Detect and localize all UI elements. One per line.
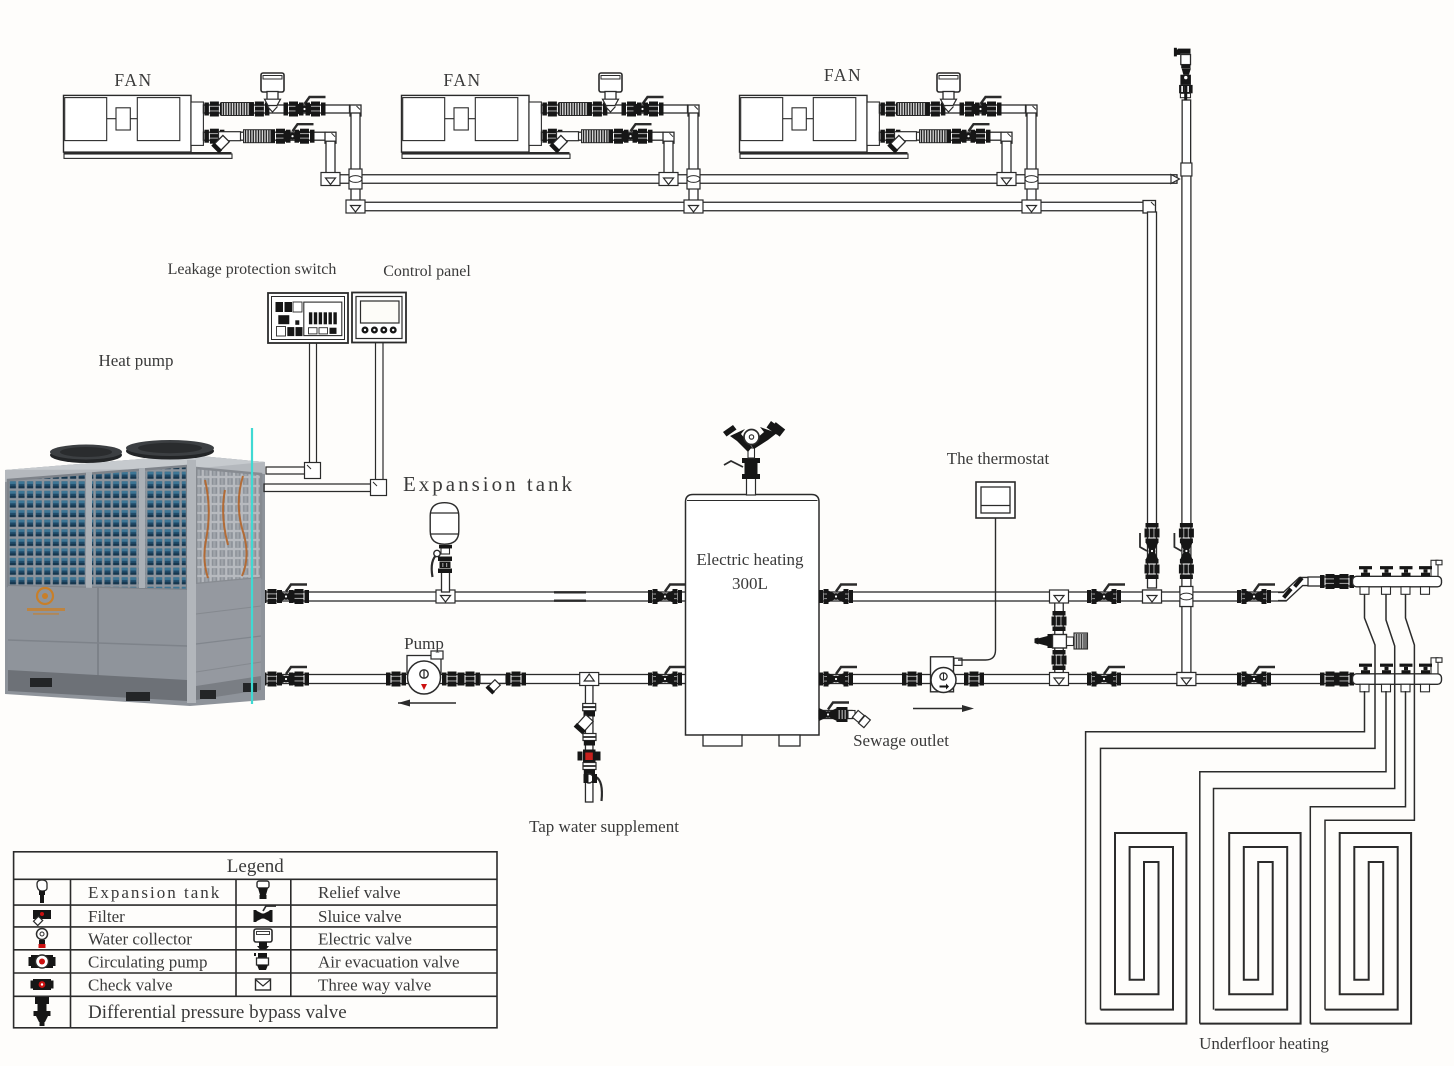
svg-text:Water collector: Water collector xyxy=(88,929,192,948)
fan coil unit 2 supply union xyxy=(542,102,562,117)
supply manifold body xyxy=(1353,560,1443,587)
fan coil unit 3 supply union 2 xyxy=(925,102,945,117)
svg-text:Electric valve: Electric valve xyxy=(318,929,412,948)
bypass bottom joint xyxy=(1050,673,1069,686)
supply manifold loop valve 4 xyxy=(1419,566,1432,576)
expansion tank shutoff valve xyxy=(432,545,452,577)
filter inlet union xyxy=(460,672,480,687)
riser 2 coupling below header junction xyxy=(1181,163,1192,176)
fan coil unit 3 supply flexible hose xyxy=(897,103,929,116)
fan coil unit 2 return drop pipe xyxy=(664,141,673,175)
supply manifold feed pipe xyxy=(1308,577,1352,586)
heat pump cabinet xyxy=(5,455,265,706)
fan coil unit 2 supply union 2 xyxy=(587,102,607,117)
fan coil unit 3 return union xyxy=(880,129,900,144)
riser 2 tee joint into return pipe xyxy=(1177,673,1196,686)
tap water vertical pipe xyxy=(585,685,593,802)
supply loop line 3 xyxy=(1325,594,1414,1010)
main return filter strainer leg xyxy=(485,679,500,694)
riser 2 upper thin pipe xyxy=(1182,100,1191,175)
riser 2 vertical pipe xyxy=(1182,175,1191,674)
sewage outlet stub xyxy=(819,711,852,719)
tap water tee joint xyxy=(580,673,599,686)
riser 1 tee joint into supply pipe xyxy=(1143,590,1162,603)
riser 1 vertical pipe xyxy=(1148,212,1157,588)
lower header elbow to riser 1 xyxy=(1143,201,1156,214)
legend icon differential pressure bypass valve xyxy=(34,997,51,1026)
fan coil unit 1 return sluice valve xyxy=(284,124,314,143)
sewage outlet ball valve xyxy=(819,703,849,722)
fan coil unit 2 supply union 4 xyxy=(644,102,664,117)
differential pressure bypass valve body xyxy=(1035,633,1088,649)
heat pump supply union xyxy=(262,589,282,604)
supply manifold outlet stub 4 xyxy=(1421,587,1430,595)
return pipe sluice valve B xyxy=(1237,672,1271,687)
fan coil unit 1 base plate xyxy=(64,153,233,158)
fan coil unit 2 return filter strainer xyxy=(549,132,578,154)
fan coil unit 1 supply pipe crossing upper header xyxy=(349,169,362,189)
fan coil unit 3 return filter strainer xyxy=(887,132,916,154)
svg-text:Tap water supplement: Tap water supplement xyxy=(529,817,679,836)
return manifold outlet stub 4 xyxy=(1421,684,1430,692)
svg-text:Filter: Filter xyxy=(88,907,125,926)
underfloor heating coil 3 xyxy=(1310,833,1411,1024)
fan coil unit 3 return flexible hose xyxy=(920,130,951,143)
fan coil unit 3 return elbow xyxy=(1001,132,1012,143)
fan coil unit 1 supply union xyxy=(204,102,224,117)
tap water flange pair xyxy=(583,704,596,711)
fan coil unit 1 return filter strainer xyxy=(211,132,240,154)
fan coil unit 3 supply union 4 xyxy=(982,102,1002,117)
fan coil unit 3 base plate xyxy=(740,153,909,158)
thermostat xyxy=(976,482,1015,518)
heat pump side copper pipes xyxy=(204,476,246,578)
return manifold body xyxy=(1353,658,1443,685)
tank outlet sluice valve (supply) body xyxy=(827,585,857,604)
legend icon sluice valve xyxy=(254,906,277,922)
fan coil unit 2 return union 3 xyxy=(633,129,653,144)
return pipe sluice valve A xyxy=(1087,672,1121,687)
supply manifold loop valve 2 xyxy=(1380,566,1393,576)
return manifold loop valve 4 xyxy=(1419,664,1432,674)
svg-text:Control panel: Control panel xyxy=(383,263,471,280)
legend icon check valve xyxy=(31,979,54,990)
fan coil unit 3 body xyxy=(740,95,880,152)
fan coil unit 2 return elbow xyxy=(663,132,674,143)
fan coil unit 1 supply union 4 xyxy=(306,102,326,117)
expansion tank vessel xyxy=(430,503,459,545)
fan coil unit 2 return flexible hose xyxy=(582,130,613,143)
svg-text:FAN: FAN xyxy=(824,65,862,85)
tank outlet sluice valve (supply) xyxy=(819,589,853,604)
fan coil unit 1 supply tee into lower header xyxy=(346,200,365,213)
heat pump return union 2 xyxy=(289,672,309,687)
tank inlet sluice valve (supply) body xyxy=(656,585,686,604)
return manifold loop valve 3 xyxy=(1400,664,1413,674)
fan coil unit 1 supply union 3 xyxy=(284,102,304,117)
circulating pump body xyxy=(407,651,443,694)
bypass top tee xyxy=(1050,590,1069,603)
legend icon filter xyxy=(33,910,51,925)
supply manifold union xyxy=(1320,574,1340,589)
heat pump lower panels xyxy=(8,586,187,700)
fan coil unit 3 electric valve xyxy=(937,73,960,112)
riser 2 crossing supply pipe xyxy=(1180,587,1193,607)
svg-text:Three way valve: Three way valve xyxy=(318,976,431,995)
fan coil unit 2 supply pipe xyxy=(541,105,687,113)
circulating pump outlet union xyxy=(964,672,984,687)
fan coil unit 2 return union xyxy=(542,129,562,144)
fan coil unit 2 supply pipe crossing upper header xyxy=(687,169,700,189)
svg-text:Check valve: Check valve xyxy=(88,976,173,995)
heat pump feet xyxy=(30,678,257,701)
riser 2 crossing over supply pipe xyxy=(1180,587,1193,607)
thermostat wire xyxy=(958,518,996,660)
svg-text:FAN: FAN xyxy=(443,70,481,90)
riser 1 tee into supply pipe xyxy=(1143,590,1162,603)
return loop line 2 xyxy=(1200,691,1386,1024)
fan coil unit 1 return flexible hose xyxy=(244,130,275,143)
heat pump fan 2 xyxy=(126,443,214,460)
sewage outlet union xyxy=(837,707,848,722)
electric heating tank 300L xyxy=(686,495,820,747)
fan coil unit 1 return elbow xyxy=(325,132,336,143)
return loop line 1 xyxy=(1086,691,1365,1024)
fan coil unit 1 return pipe xyxy=(203,132,325,140)
flow arrow left under pump xyxy=(398,702,456,704)
svg-text:Heat pump: Heat pump xyxy=(98,351,173,370)
svg-text:Relief valve: Relief valve xyxy=(318,883,401,902)
supply pipe sluice valve B body xyxy=(1245,585,1275,604)
svg-text:Sewage outlet: Sewage outlet xyxy=(853,731,949,750)
svg-text:Expansion tank: Expansion tank xyxy=(88,883,221,902)
return manifold union xyxy=(1320,672,1340,687)
return pipe sluice valve A body xyxy=(1095,667,1125,686)
tap water flange pair 3 xyxy=(583,763,596,770)
fan coil unit 3 supply drop pipe xyxy=(1027,113,1036,203)
fan coil unit 3 supply elbow xyxy=(1026,105,1037,116)
pump inlet union xyxy=(386,672,406,687)
fan coil unit 2 return union 2 xyxy=(609,129,629,144)
fan coil unit 2 supply drop pipe xyxy=(689,113,698,203)
fan coil unit 3 supply union xyxy=(880,102,900,117)
expansion tank tee joint xyxy=(436,590,455,603)
svg-text:Air evacuation valve: Air evacuation valve xyxy=(318,952,460,971)
fan coil unit 3 return union 3 xyxy=(971,129,991,144)
return pipe sluice valve B body xyxy=(1245,667,1275,686)
fan coil unit 2 supply tee into lower header xyxy=(684,200,703,213)
union coupling xyxy=(1179,559,1194,579)
fan coil unit 1 return union 3 xyxy=(295,129,315,144)
tank outlet sluice valve (return) xyxy=(819,672,853,687)
tap water 45-degree spout xyxy=(574,714,594,735)
fan coil unit 1 electric valve xyxy=(261,73,284,112)
heat pump front grille posts xyxy=(86,472,92,588)
return manifold loop valve 1 xyxy=(1359,664,1372,674)
legend icon expansion tank xyxy=(37,880,47,903)
bypass vertical pipe xyxy=(1055,601,1064,675)
return manifold outlet stub 2 xyxy=(1382,684,1391,692)
svg-text:Pump: Pump xyxy=(404,634,444,653)
legend icon air evacuation valve xyxy=(254,953,269,970)
fan coil unit 2 supply sluice valve xyxy=(634,97,664,116)
upper header joint into riser 2 xyxy=(1171,175,1180,184)
fan coil unit 2 body xyxy=(402,95,542,152)
svg-text:The thermostat: The thermostat xyxy=(947,449,1050,468)
main return pipe xyxy=(266,675,1352,684)
fan coil unit 1 supply elbow xyxy=(350,105,361,116)
supply manifold outlet stub 1 xyxy=(1360,587,1369,595)
fan coil unit 1 return union xyxy=(204,129,224,144)
svg-text:FAN: FAN xyxy=(114,70,152,90)
leakage switch wire to heat pump xyxy=(275,343,310,467)
heat pump return union xyxy=(262,672,282,687)
main return filter body xyxy=(480,675,506,684)
tank inlet sluice valve (return) xyxy=(648,672,682,687)
fan coil unit 1 supply drop pipe xyxy=(351,113,360,203)
union coupling xyxy=(1179,523,1194,543)
control panel box xyxy=(352,293,406,343)
return manifold outlet stub 3 xyxy=(1401,684,1410,692)
fan coil unit 3 supply sluice valve xyxy=(972,97,1002,116)
filter outlet union xyxy=(506,672,526,687)
svg-text:Underfloor heating: Underfloor heating xyxy=(1199,1034,1329,1053)
supply pipe sluice valve B xyxy=(1237,589,1271,604)
fan coil unit 2 return tee into upper header xyxy=(659,173,678,186)
heat pump base strip xyxy=(8,670,187,701)
cyan vertical guide line xyxy=(251,428,253,704)
circulating pump body xyxy=(931,657,963,693)
fan coil unit 3 return union 2 xyxy=(947,129,967,144)
fan coil unit 1 supply union 2 xyxy=(249,102,269,117)
svg-text:Leakage protection switch: Leakage protection switch xyxy=(168,261,337,278)
fan coil unit 2 base plate xyxy=(402,153,571,158)
fan coil unit 1 supply pipe xyxy=(203,105,349,113)
tap water flange pair 2 xyxy=(583,734,596,741)
return loop line 3 xyxy=(1310,691,1405,1024)
fan coil unit 3 return pipe xyxy=(879,132,1001,140)
tank inlet sluice valve (supply) xyxy=(648,589,682,604)
fan coil unit 2 supply elbow xyxy=(688,105,699,116)
supply manifold union 2 xyxy=(1334,574,1354,589)
fan coil unit 1 supply flexible hose xyxy=(221,103,253,116)
legend icon circulating pump xyxy=(29,955,56,968)
supply loop line 2 xyxy=(1214,594,1395,1010)
union coupling xyxy=(1145,559,1160,579)
underfloor heating coil 1 xyxy=(1086,833,1187,1024)
leakage protection switch box xyxy=(268,293,348,343)
legend table xyxy=(14,852,497,1028)
heat pump fan 1 xyxy=(50,447,122,463)
supply manifold loop valve 3 xyxy=(1400,566,1413,576)
heat pump unit xyxy=(5,428,265,706)
supply manifold outlet stub 3 xyxy=(1401,587,1410,595)
fan coil unit 2 supply union 3 xyxy=(622,102,642,117)
return manifold outlet stub 1 xyxy=(1360,684,1369,692)
heat pump side coil grille xyxy=(196,468,261,584)
control panel wire to heat pump xyxy=(272,343,376,485)
svg-text:Circulating pump: Circulating pump xyxy=(88,952,207,971)
fan coil unit 2 electric valve xyxy=(599,73,622,112)
supply loop line 1 xyxy=(1101,594,1376,1010)
legend icon three way valve xyxy=(256,979,271,990)
tap water sluice valve xyxy=(584,774,602,801)
svg-text:Legend: Legend xyxy=(227,856,284,877)
lower header pipe (fan supply main) xyxy=(356,202,1149,211)
tap water union xyxy=(584,711,596,717)
heat pump top frame xyxy=(5,455,265,482)
heat pump corner post xyxy=(187,460,196,703)
underfloor heating coil 2 xyxy=(1200,833,1301,1024)
tank inlet sluice valve (return) body xyxy=(656,667,686,686)
fan coil unit 1 return union 2 xyxy=(271,129,291,144)
fan coil unit 1 return tee into upper header xyxy=(321,173,340,186)
bypass union top xyxy=(1052,611,1067,631)
return manifold loop valve 2 xyxy=(1380,664,1393,674)
svg-text:Expansion tank: Expansion tank xyxy=(403,472,575,496)
sewage outlet spout xyxy=(848,710,870,728)
fan coil unit 3 supply tee into lower header xyxy=(1022,200,1041,213)
ball valve xyxy=(1174,533,1193,560)
heat pump supply sluice valve xyxy=(277,585,307,604)
fan coil unit 3 return tee into upper header xyxy=(997,173,1016,186)
fan coil unit 3 supply pipe xyxy=(879,105,1025,113)
expansion tank stem pipe xyxy=(442,572,450,592)
heat pump return sluice valve xyxy=(277,667,307,686)
fan coil unit 1 supply sluice valve xyxy=(296,97,326,116)
supply pipe diagonal offset to manifold xyxy=(1278,577,1311,599)
fan coil unit 2 supply flexible hose xyxy=(559,103,591,116)
fan coil unit 1 body xyxy=(64,95,204,152)
ball valve xyxy=(1140,533,1159,560)
heat pump front coil grille xyxy=(8,466,187,590)
legend icon relief valve xyxy=(257,881,269,899)
supply manifold loop valve 1 xyxy=(1359,566,1372,576)
air evacuation valve at top of riser 2 xyxy=(1174,48,1193,101)
supply pipe sluice valve A xyxy=(1087,589,1121,604)
fan coil unit 3 return drop pipe xyxy=(1002,141,1011,175)
circulating pump inlet union xyxy=(902,672,922,687)
tap water check valve xyxy=(578,750,601,763)
svg-text:Sluice valve: Sluice valve xyxy=(318,907,402,926)
fan coil unit 3 return sluice valve xyxy=(960,124,990,143)
riser 2 tee into return pipe xyxy=(1177,673,1196,686)
fan coil unit 3 supply union 3 xyxy=(960,102,980,117)
flow arrow right xyxy=(913,708,962,710)
fan coil unit 3 supply pipe crossing upper header xyxy=(1025,169,1038,189)
supply pipe sluice valve A body xyxy=(1095,585,1125,604)
svg-text:300L: 300L xyxy=(732,574,768,593)
heat pump logo xyxy=(37,588,53,604)
heat pump supply union 2 xyxy=(289,589,309,604)
upper header pipe (fan return main) xyxy=(331,175,1178,184)
fan coil unit 1 return drop pipe xyxy=(326,141,335,175)
svg-text:Differential pressure bypass v: Differential pressure bypass valve xyxy=(88,1002,347,1023)
tank outlet sluice valve (return) body xyxy=(827,667,857,686)
control panel wire elbow box xyxy=(371,480,387,496)
svg-text:Electric heating: Electric heating xyxy=(696,550,804,569)
tank safety valve group xyxy=(723,421,785,495)
main supply pipe (heat pump to manifold) xyxy=(266,592,1286,601)
fan coil unit 2 return pipe xyxy=(541,132,663,140)
legend icon water collector xyxy=(37,929,48,949)
bypass union bottom xyxy=(1052,650,1067,670)
supply pipe sleeve coupling marks xyxy=(554,592,586,600)
leakage switch wire elbow box xyxy=(305,463,321,479)
union coupling xyxy=(1145,523,1160,543)
pump outlet union xyxy=(442,672,462,687)
supply manifold outlet stub 2 xyxy=(1382,587,1391,595)
legend icon electric valve xyxy=(254,929,272,950)
return manifold union 2 xyxy=(1334,672,1354,687)
fan coil unit 2 return sluice valve xyxy=(622,124,652,143)
